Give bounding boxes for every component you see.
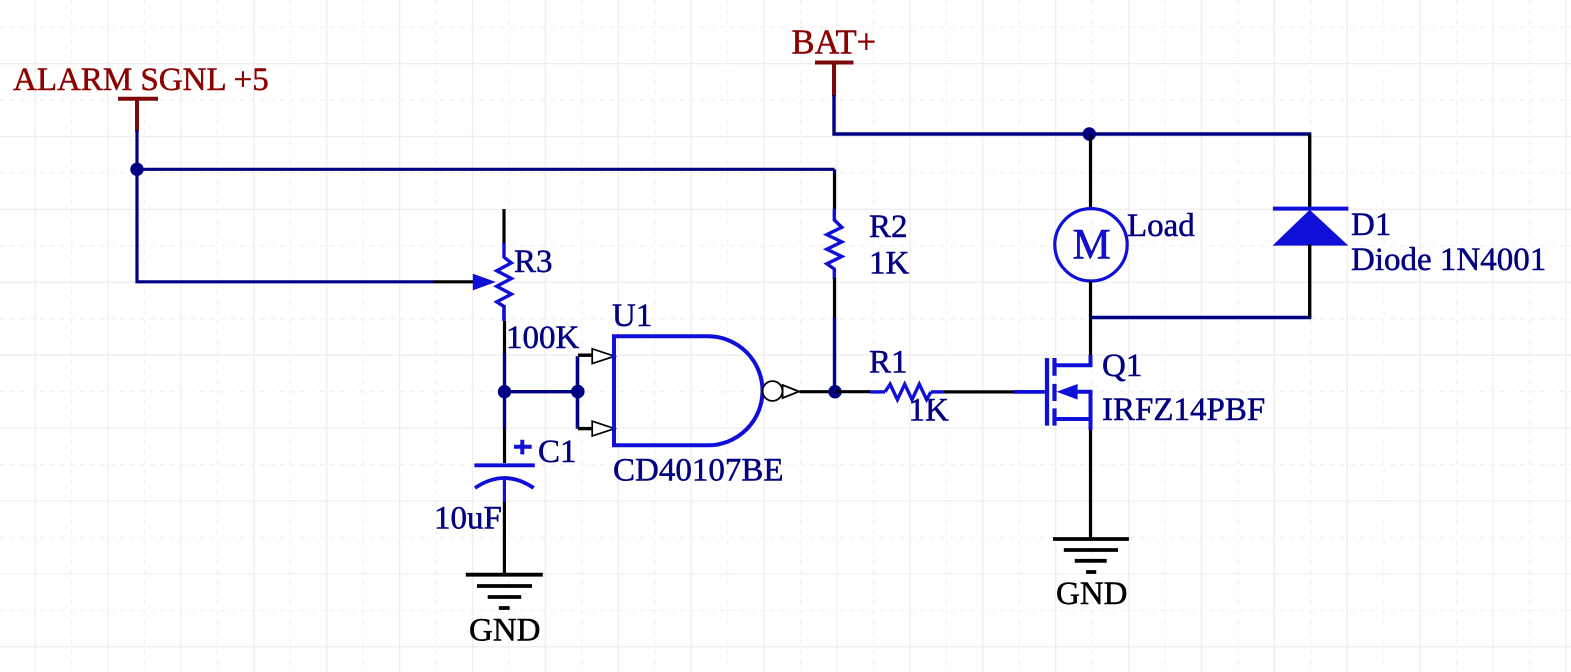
capacitor C1 plus sign [514,440,532,455]
wire R3 bottom [502,305,506,391]
transistor Q1 gate bar [1045,358,1049,426]
wire ALARM to R2 top [137,168,835,171]
resistor R1 [885,384,931,399]
svg-text:Q1: Q1 [1102,348,1142,384]
motor M1 circle [1055,209,1127,281]
wire R2 top corner [833,169,836,175]
transistor Q1 channel dashes [1052,358,1056,426]
wire gate node to R1 [835,390,870,393]
label Q1 [1102,348,1142,384]
svg-text:CD40107BE: CD40107BE [613,453,784,489]
ground GND right [1053,539,1129,572]
pin R2 bottom [833,268,837,317]
svg-text:Diode 1N4001: Diode 1N4001 [1351,242,1546,278]
wire node to C1 [503,392,506,429]
svg-text:1K: 1K [909,393,950,429]
wire Q1 source to ground [1089,430,1092,538]
svg-text:100K: 100K [506,320,580,356]
capacitor C1 bottom plate [475,478,534,488]
junction node R3/C1 [498,385,511,398]
svg-text:IRFZ14PBF: IRFZ14PBF [1102,392,1265,428]
pin C1 top [503,429,506,463]
svg-text:1K: 1K [869,246,910,282]
pin segment R3 bottom [503,321,506,353]
label R2 1K [869,246,910,282]
label CD40107BE [613,453,784,489]
pin R1 right [931,390,944,393]
svg-text:D1: D1 [1351,207,1391,243]
pin stub U1 input A [578,354,592,357]
pin D1 anode lead [1308,244,1311,317]
pin stub U1 input B [578,427,592,430]
net label BAT+ [792,24,877,62]
power port ALARM bar [118,99,158,132]
pin stub R3 top [502,209,505,244]
junction ALARM node [130,163,143,176]
U1 input buffer symbol A [592,349,614,364]
transistor Q1 drain lead [1055,355,1091,365]
diode D1 triangle [1273,210,1349,246]
wire U1 output to node [800,390,836,393]
diode D1 cathode bar [1273,207,1349,211]
wire R2 bottom to gate node [833,317,836,392]
junction node U1 inputs [571,385,585,399]
wire input tie vertical [576,356,580,429]
power port BAT+ bar [815,63,854,97]
label C1 [538,434,577,470]
svg-text:10uF: 10uF [434,501,502,537]
R3 wiper arrow [473,274,496,291]
resistor R3 [497,257,512,306]
pin wire to R3 wiper [433,280,474,283]
wire ALARM stem [135,130,138,169]
wire C1 to ground [503,502,506,575]
transistor Q1 body/source leads [1055,392,1091,430]
wire motor bottom [1089,281,1092,318]
label GND left [469,613,541,649]
wire motor top [1089,134,1092,209]
svg-text:U1: U1 [612,298,652,334]
label Diode 1N4001 [1351,242,1546,278]
wire motor to diode bottom [1091,316,1312,319]
label R2 [869,209,908,245]
label R1 [869,345,908,381]
svg-text:R2: R2 [869,209,908,245]
svg-text:C1: C1 [538,434,577,470]
resistor R2 [827,220,842,269]
svg-text:ALARM SGNL +5: ALARM SGNL +5 [13,62,269,98]
label 100K [506,320,580,356]
svg-text:R1: R1 [869,345,908,381]
wire BAT+ stem [834,95,1311,134]
label R3 [514,244,553,280]
net label ALARM SGNL +5 [13,62,269,98]
U1 input buffer symbol B [592,421,614,436]
label GND right [1056,576,1128,612]
wire R1 to gate [944,390,1015,393]
transistor Q1 body arrow [1057,384,1078,400]
pin lead R2 top [833,209,836,221]
label U1 [612,298,652,334]
svg-text:Load: Load [1127,208,1195,244]
svg-text:M: M [1073,222,1111,269]
wire ALARM down-left branch [137,169,433,281]
pin R1 left [870,390,885,393]
U1 output bubble [763,381,783,401]
label D1 [1351,207,1391,243]
pin R2 top [833,174,836,210]
NAND gate U1 body [614,336,762,445]
capacitor C1 top plate [474,463,534,467]
svg-text:GND: GND [1056,576,1128,612]
wire gate lead [1014,390,1045,394]
pin lead R3 top [502,243,505,258]
junction BAT rail / motor [1083,127,1096,140]
junction gate node [828,385,841,398]
svg-text:BAT+: BAT+ [792,24,877,62]
label 10uF [434,501,502,537]
svg-text:GND: GND [469,613,541,649]
wire node to U1 inputs [505,390,578,393]
label IRFZ14PBF [1102,392,1265,428]
wire motor node to Q1 drain [1089,318,1092,356]
label Load [1127,208,1195,244]
svg-text:R3: R3 [514,244,553,280]
U1 output arrow [783,385,799,398]
wire C1 bottom lead [503,478,506,502]
pin D1 cathode lead [1308,134,1311,207]
ground GND left [466,575,543,608]
label R1 1K [909,393,950,429]
